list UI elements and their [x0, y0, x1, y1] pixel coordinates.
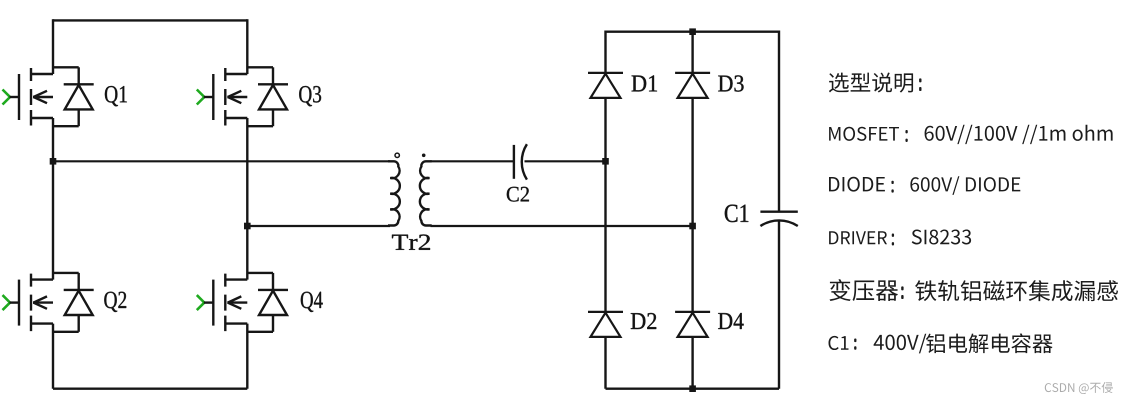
transformer Tr2 primary winding — [388, 161, 400, 225]
text: colon 3 (full-width colon dots) — [891, 181, 893, 184]
label C1 — [725, 205, 749, 223]
junction: C2 / D1-D2 midpoint — [602, 158, 609, 165]
text: 选型说明 — [829, 73, 913, 93]
wire: rectifier bottom rail — [606, 388, 780, 390]
wire: node A rail to transformer primary top — [53, 160, 390, 162]
wire: left leg lower (Q2 source to bottom rail) — [52, 324, 54, 389]
text: 铝电解电容器 — [926, 333, 1053, 353]
junction: node B (Q3/Q4 midpoint) — [244, 223, 251, 230]
wire: right leg middle (Q3 source to Q4 drain) — [246, 118, 248, 280]
transformer Tr2 secondary dot — [422, 154, 426, 158]
text: colon 2 (full-width colon dots) — [905, 130, 907, 133]
wire: C2 to rectifier node (junction on D1-D2 leg) — [525, 160, 606, 162]
label D2 — [631, 313, 656, 329]
transistor Q4 (N-MOSFET with body diode) — [197, 273, 288, 332]
transistor Q1 (N-MOSFET with body diode) — [3, 67, 94, 126]
label D4 — [718, 313, 743, 329]
text: 600V/ DIODE — [910, 176, 1020, 195]
transformer Tr2 secondary winding — [420, 161, 432, 225]
label Q1 — [105, 86, 127, 106]
wire: secondary top lead to C2 — [431, 160, 514, 162]
label Q4 — [301, 292, 323, 312]
wire: node B rail to transformer primary bottom — [247, 225, 390, 227]
text: colon 4 (full-width colon dots) — [892, 234, 894, 237]
text: colon 1 (full-width colon dots) — [919, 78, 921, 82]
text: colon 6 (full-width colon dots) — [854, 339, 856, 343]
capacitor C1 — [760, 212, 797, 226]
junction: node A (Q1/Q2 midpoint) — [50, 158, 57, 165]
text: SI8233 — [912, 229, 971, 244]
label D1 — [632, 75, 657, 91]
text: 400V/ — [874, 334, 927, 354]
junction: bottom rail / D4 leg — [689, 385, 696, 392]
wire: rectifier top rail — [606, 31, 780, 33]
label C2 — [507, 187, 529, 202]
text: DIODE — [829, 177, 885, 192]
wire: middle rectifier leg — [691, 32, 693, 389]
transistor Q3 (N-MOSFET with body diode) — [197, 67, 288, 126]
wire: right leg top (top rail to C1) — [778, 31, 780, 212]
label D3 — [718, 75, 743, 91]
label Q2 — [104, 292, 126, 312]
capacitor C2 — [514, 144, 527, 179]
diode D4 — [675, 312, 710, 337]
wire: secondary bottom lead to D3-D4 midpoint — [431, 225, 693, 227]
wire: right leg bottom (C1 to bottom rail) — [778, 220, 780, 389]
text: watermark CSDN @不侵 — [1045, 382, 1113, 394]
wire: left rectifier leg — [604, 31, 606, 389]
transformer Tr2 primary dot — [395, 153, 399, 157]
wire: bridge bottom rail — [53, 388, 247, 390]
junction: top rail / D3 leg — [689, 28, 696, 35]
diode D3 — [675, 73, 710, 98]
text: colon 5 (full-width colon dots) — [901, 286, 903, 290]
junction: secondary bottom / D3-D4 midpoint — [689, 223, 696, 230]
wire: bridge top rail — [53, 19, 247, 21]
wire: left leg upper (top rail to Q1 drain) — [52, 19, 54, 74]
wire: right leg upper (top rail to Q3 drain) — [246, 19, 248, 74]
label Q3 — [299, 86, 321, 106]
text: 铁轨铝磁环集成漏感 — [915, 280, 1118, 301]
diode D1 — [588, 73, 623, 98]
wire: right leg lower (Q4 source to bottom rail) — [246, 324, 248, 389]
wire: left leg middle (Q1 source to Q2 drain) — [52, 118, 54, 280]
label Tr2 — [392, 235, 430, 250]
transistor Q2 (N-MOSFET with body diode) — [3, 273, 94, 332]
text: C1 spec — [829, 336, 849, 350]
text: MOSFET — [829, 127, 899, 141]
text: 60V//100V //1m ohm — [925, 125, 1113, 144]
text: 变压器 — [830, 279, 899, 301]
diode D2 — [588, 312, 623, 337]
text: DRIVER — [829, 231, 887, 244]
